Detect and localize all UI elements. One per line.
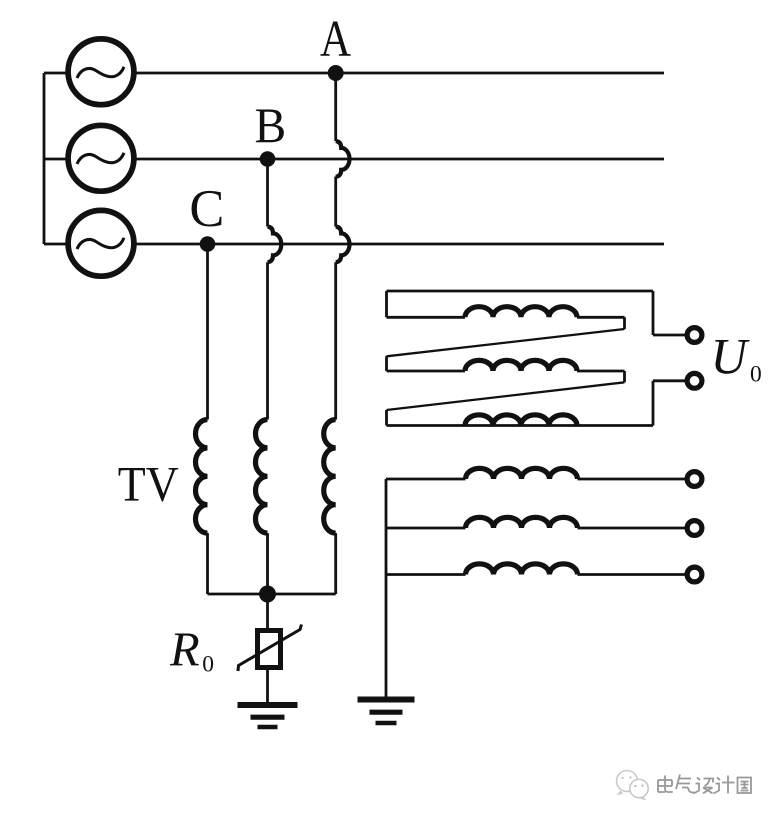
wire R0 to ground [266,668,269,703]
AC source G3 [68,210,134,276]
wire dropper A mid [334,177,337,227]
ground right (wye neutral) [358,700,415,724]
wire dropper from node A [334,73,337,141]
terminal secondary 1 [687,472,702,487]
wire dropper B lower [266,262,269,419]
svg-text:0: 0 [750,362,762,388]
TV winding phase A (right) [324,420,336,534]
open delta left stubs [385,291,388,426]
secondary wye bus [385,479,388,697]
wire diagonal 1 [387,329,625,356]
wire to terminal U0 top [653,334,686,337]
wire phase line A [44,72,664,75]
coil secondary 3 [466,564,578,575]
wire diagonal 2 [387,382,625,410]
TV winding phase C (left) [196,420,208,534]
open delta winding 2 line [387,371,625,382]
coil secondary 2 [466,517,578,528]
wire neutral to R0 [266,594,269,631]
wire TV neutral bus [208,593,336,596]
open delta right verticals [652,291,655,426]
svg-text:R: R [169,624,200,677]
wire hop B over phase C [268,227,282,263]
TV winding phase B (middle) [256,420,268,534]
ground below R0 [238,705,298,727]
svg-text:0: 0 [202,652,214,678]
AC source G1 [68,39,134,105]
open delta bottom rail / winding 3 [387,424,654,427]
wire to terminal U0 bottom [653,379,686,382]
watermark text dian qi she ji quan [657,773,751,793]
wire dropper from node C [206,244,209,420]
wire below TV windings [208,533,336,594]
wire dropper A lower [334,262,337,419]
node A dot [328,65,344,81]
node TV neutral junction dot [259,586,276,603]
secondary row 3 line [386,573,688,576]
wire phase line C [44,243,664,246]
svg-text:U: U [711,328,751,384]
watermark logo [617,771,649,801]
coil secondary 1 [466,468,578,479]
wire hop A over phase B [336,141,350,177]
node B dot [260,151,276,167]
resistor R0 diagonal stroke [238,625,302,672]
svg-text:A: A [320,11,351,68]
terminal U0 top [687,328,702,343]
svg-text:B: B [255,97,287,153]
terminal secondary 3 [687,567,702,582]
wire left vertical bus [43,73,46,244]
AC source G2 [68,125,134,191]
node C dot [200,236,216,252]
resistor R0 (nonlinear) body [258,631,281,668]
terminal secondary 2 [687,521,702,536]
coil winding 1 [465,307,577,318]
svg-text:TV: TV [118,457,179,512]
secondary row 1 line [386,478,688,481]
coil winding 2 [465,360,577,371]
wire phase line B [44,158,664,161]
open delta winding 1 line [387,317,625,329]
secondary row 2 line [386,527,688,530]
terminal U0 bottom [687,373,702,388]
open delta top rail [387,290,654,293]
svg-text:C: C [189,180,224,238]
wire hop A over phase C [336,227,350,263]
coil winding 3 [465,415,577,426]
wire dropper from node B [266,159,269,227]
